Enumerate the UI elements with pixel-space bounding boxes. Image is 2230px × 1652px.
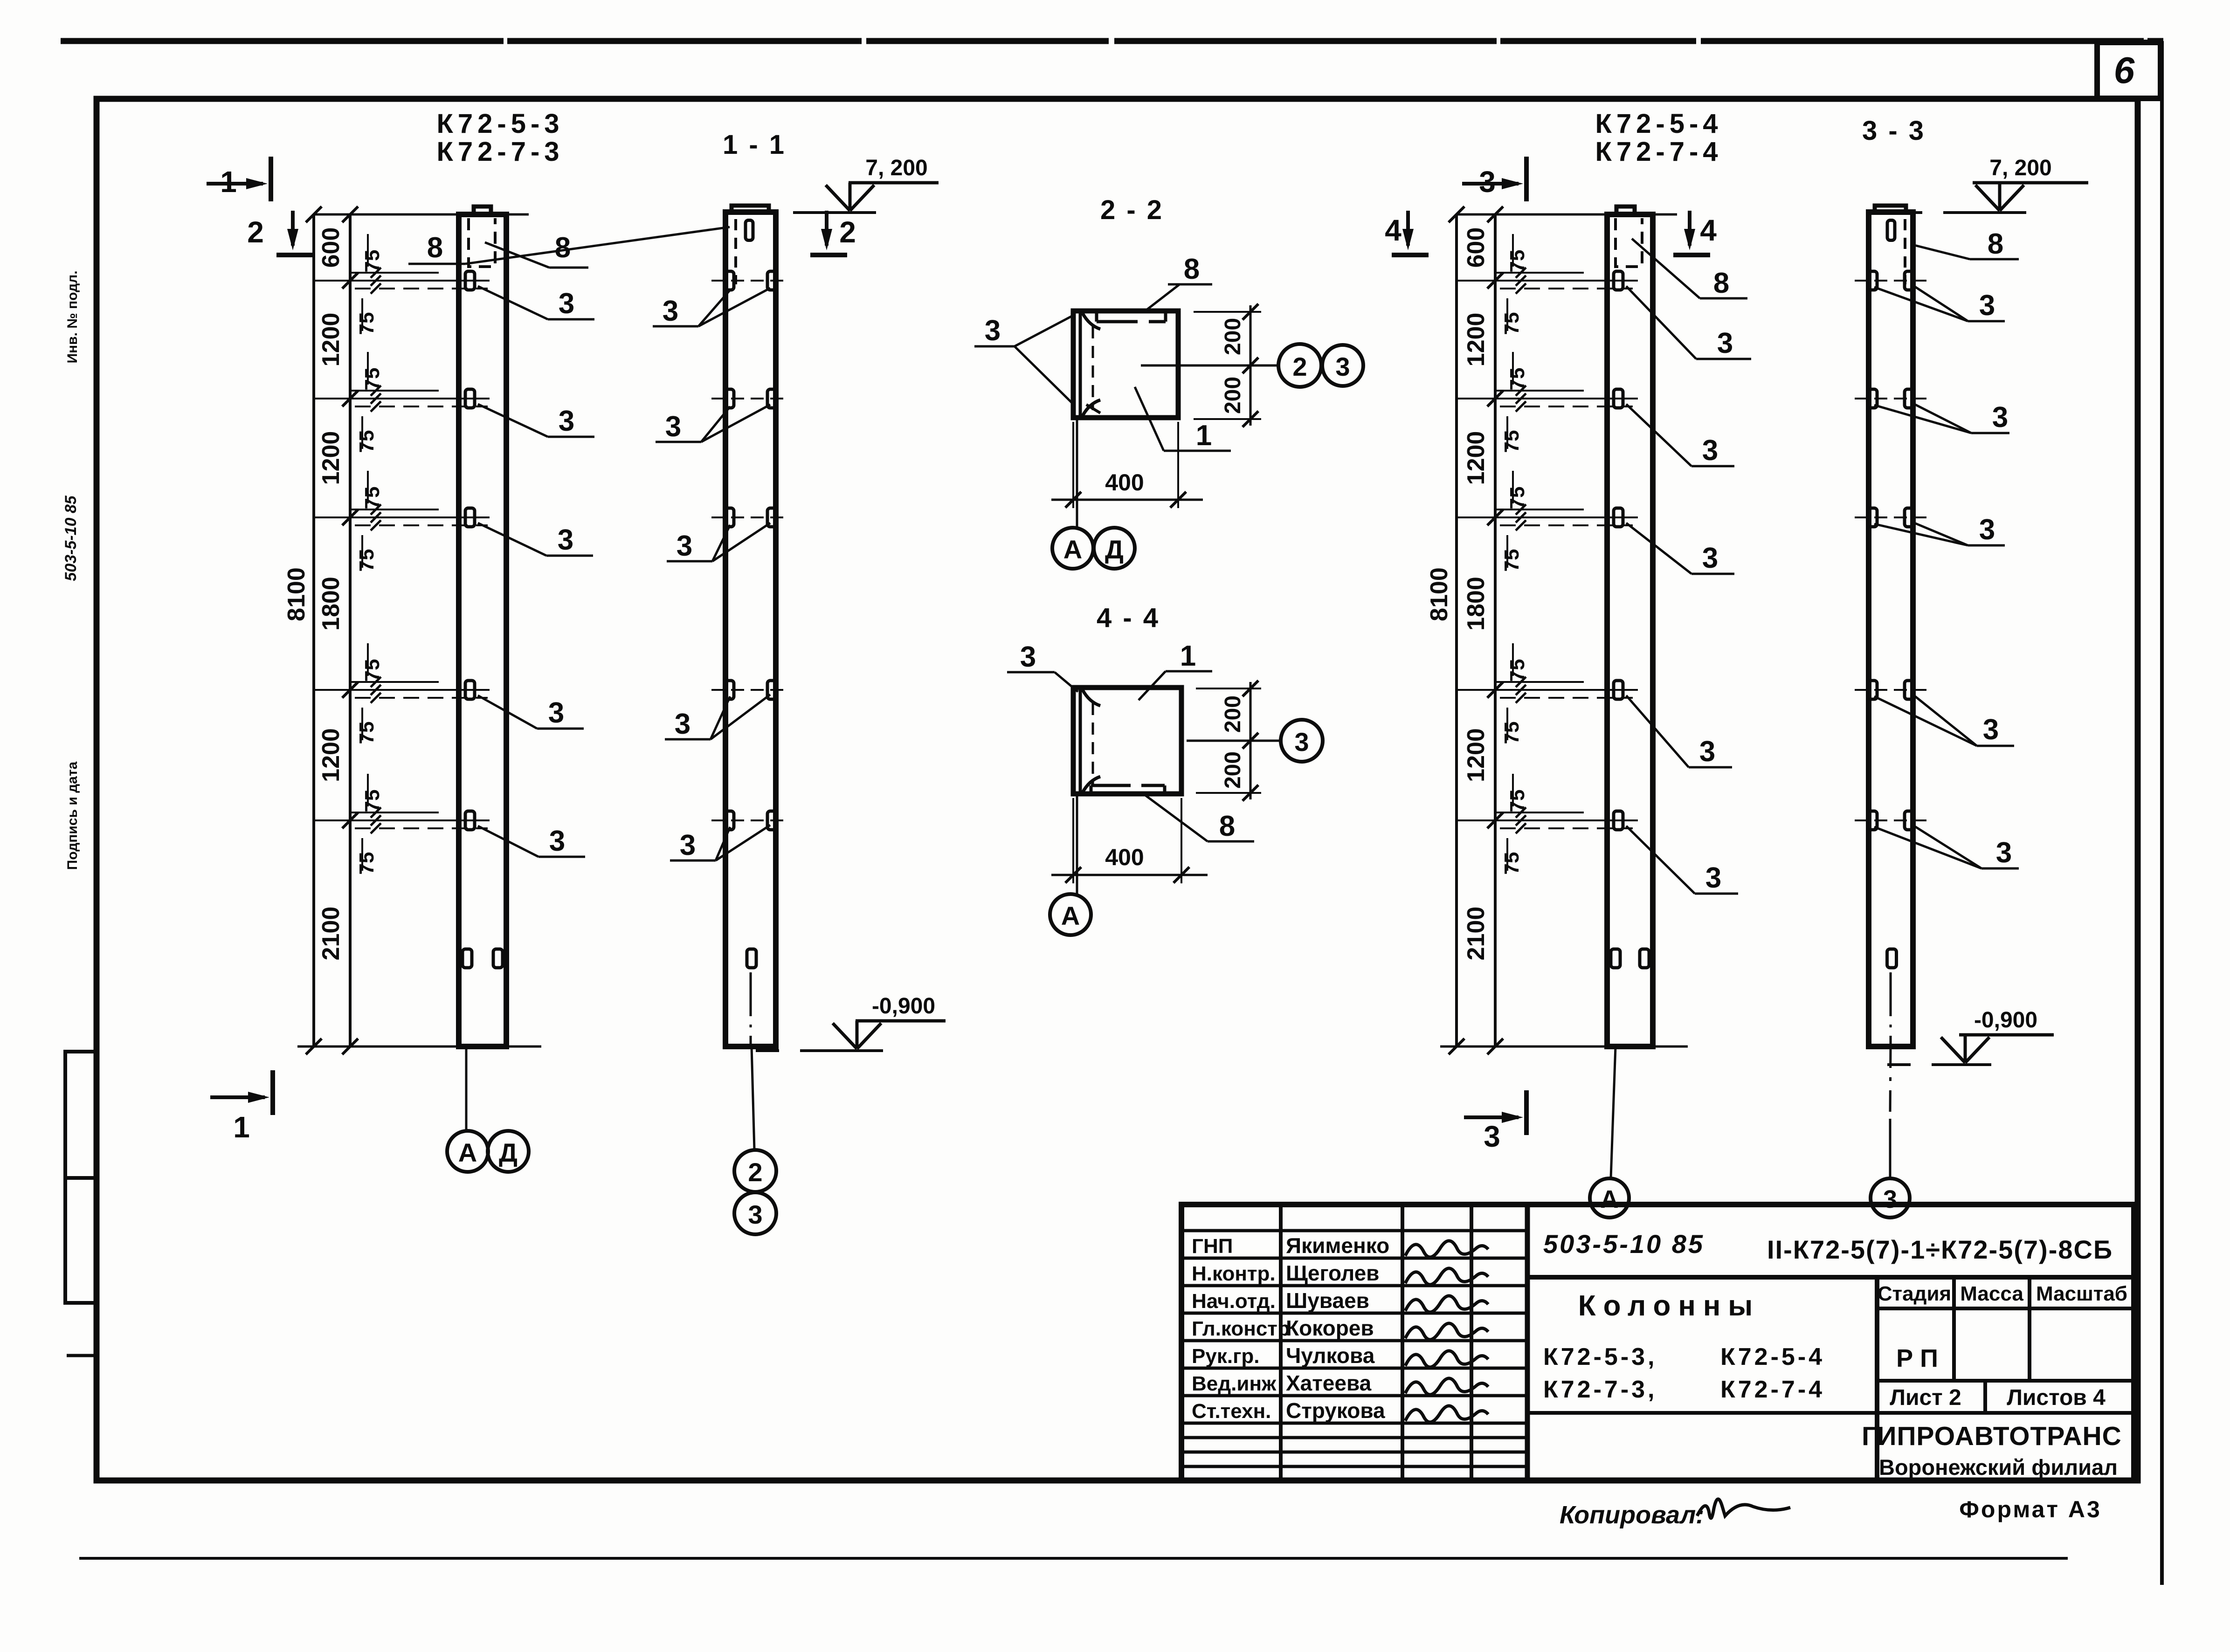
- grid circle A (4-4): [1050, 894, 1091, 935]
- section 2-2 top plate 8: [1097, 320, 1138, 324]
- svg-text:75: 75: [1500, 722, 1523, 744]
- svg-text:400: 400: [1105, 469, 1144, 496]
- cell Kolonny: [1875, 1277, 1879, 1480]
- svg-text:К72-5-4: К72-5-4: [1720, 1343, 1825, 1370]
- leaders 3 (embedded items, K72-5-3): [478, 286, 548, 319]
- grid circle 3: [734, 1192, 776, 1234]
- svg-text:Д: Д: [1105, 535, 1124, 564]
- section 4-4 square outline: [1073, 688, 1181, 794]
- svg-text:200: 200: [1221, 377, 1245, 414]
- svg-text:Формат А3: Формат А3: [1959, 1496, 2102, 1522]
- section 2-2 channel flange line: [1079, 313, 1082, 416]
- svg-text:1: 1: [233, 1110, 250, 1144]
- svg-text:А: А: [1061, 901, 1080, 930]
- section 4-4 bottom plate 8: [1091, 784, 1131, 787]
- axis line + grid circles 2/3 (section 2-2): [1141, 365, 1277, 367]
- svg-text:3: 3: [1992, 401, 2008, 434]
- sheet row: [1877, 1379, 2134, 1383]
- svg-text:1: 1: [220, 165, 237, 199]
- section 4-4 hidden dashed line: [1092, 703, 1094, 787]
- svg-text:8: 8: [427, 232, 443, 264]
- leaders 3 (1-1 view): [698, 290, 730, 326]
- column section 1-1 view: [725, 212, 776, 1046]
- title block divider under doc numbers: [1527, 1275, 2134, 1280]
- svg-text:Воронежский филиал: Воронежский филиал: [1879, 1455, 2118, 1480]
- svg-text:75: 75: [1506, 368, 1529, 391]
- grid circle D: [488, 1131, 529, 1172]
- svg-text:Ст.техн.: Ст.техн.: [1192, 1400, 1271, 1423]
- svg-text:3: 3: [1979, 289, 1995, 322]
- svg-text:Гл.констр: Гл.констр: [1192, 1317, 1290, 1340]
- svg-text:Колонны: Колонны: [1578, 1290, 1760, 1322]
- svg-text:2: 2: [247, 215, 264, 249]
- svg-text:3: 3: [559, 405, 574, 437]
- svg-text:К72-7-4: К72-7-4: [1595, 137, 1722, 167]
- section 4-4 channel flange line: [1079, 690, 1082, 792]
- section marker 3 (bottom): [1464, 1115, 1519, 1119]
- svg-text:3: 3: [748, 1200, 762, 1229]
- svg-text:К72-5-4: К72-5-4: [1595, 109, 1722, 139]
- svg-text:1800: 1800: [318, 577, 345, 631]
- svg-text:2: 2: [839, 215, 856, 249]
- svg-text:4 - 4: 4 - 4: [1097, 603, 1160, 633]
- title block signature table: [1525, 1205, 1530, 1480]
- svg-text:К72-7-3,: К72-7-3,: [1543, 1376, 1657, 1403]
- svg-text:3: 3: [1883, 1185, 1897, 1213]
- svg-text:75: 75: [355, 549, 378, 572]
- grid circle 2: [734, 1150, 776, 1192]
- svg-text:75: 75: [361, 487, 384, 509]
- dim chain lines right: [1455, 214, 1458, 1046]
- page number box: [2097, 42, 2161, 98]
- svg-text:75: 75: [1506, 250, 1529, 273]
- svg-text:Лист 2: Лист 2: [1890, 1385, 1961, 1410]
- grid circle A: [447, 1131, 488, 1172]
- svg-text:1: 1: [1196, 420, 1212, 452]
- leader 8 (top plate, K72-5-3): [485, 242, 549, 268]
- section 2-2 square outline: [1073, 311, 1178, 418]
- svg-text:Р П: Р П: [1896, 1344, 1938, 1372]
- sheet bottom edge: [79, 1557, 2068, 1560]
- svg-text:К72-7-4: К72-7-4: [1720, 1376, 1825, 1403]
- grid circle 2 (2-2): [1278, 344, 1321, 387]
- svg-text:Масса: Масса: [1960, 1282, 2023, 1305]
- svg-text:ГНП: ГНП: [1192, 1235, 1233, 1258]
- svg-text:400: 400: [1105, 844, 1144, 870]
- dim 400 (section 4-4): [1072, 798, 1074, 883]
- svg-text:Якименко: Якименко: [1286, 1233, 1389, 1258]
- svg-text:1200: 1200: [1463, 431, 1490, 485]
- svg-text:3: 3: [1294, 727, 1309, 757]
- svg-text:1200: 1200: [318, 728, 345, 782]
- svg-text:1 - 1: 1 - 1: [723, 130, 786, 160]
- svg-text:75: 75: [1506, 659, 1529, 682]
- section marker 4 (right of K72-5-4): [1688, 211, 1691, 246]
- leader 1 (section 4-4): [1166, 670, 1212, 673]
- axis line to grid circle 3 (3-3): [1890, 972, 1892, 998]
- elevation mark -0,900 (right): [1932, 1063, 1991, 1066]
- svg-text:3: 3: [548, 697, 564, 729]
- svg-text:75: 75: [355, 312, 378, 335]
- svg-text:3: 3: [1484, 1120, 1500, 1153]
- axis line to circles 2/3 under 1-1: [750, 972, 752, 998]
- svg-text:3: 3: [680, 829, 696, 861]
- grid circle 3 (2-2): [1322, 345, 1363, 386]
- svg-text:Кокорев: Кокорев: [1286, 1316, 1374, 1340]
- svg-text:6: 6: [2114, 49, 2135, 91]
- svg-text:7, 200: 7, 200: [865, 156, 927, 180]
- svg-text:8: 8: [1988, 228, 2003, 260]
- svg-text:1200: 1200: [318, 431, 345, 485]
- leader 8 (1-1 view): [465, 227, 730, 264]
- svg-text:3: 3: [1702, 434, 1718, 467]
- svg-text:Копировал:: Копировал:: [1560, 1501, 1704, 1529]
- column K72-5-4 elevation: [1607, 214, 1653, 1046]
- svg-text:75: 75: [1500, 312, 1523, 335]
- title block outline: [1181, 1205, 2134, 1480]
- section 4-4 anchor hook bottom-left: [1083, 777, 1100, 792]
- svg-text:75: 75: [1500, 852, 1523, 875]
- leaders 3 (3-3 view): [1874, 287, 1968, 321]
- svg-text:3: 3: [1983, 714, 1999, 746]
- stage/mass/scale header: [1877, 1307, 2134, 1310]
- axis line to grid circle A (K72-5-4): [1611, 1046, 1616, 1178]
- drawing frame: [97, 99, 2138, 1480]
- svg-text:600: 600: [1463, 227, 1490, 268]
- svg-text:3: 3: [1705, 862, 1721, 894]
- svg-text:3 - 3: 3 - 3: [1862, 116, 1926, 146]
- svg-text:II-К72-5(7)-1÷К72-5(7)-8СБ: II-К72-5(7)-1÷К72-5(7)-8СБ: [1767, 1235, 2113, 1264]
- svg-text:Щеголев: Щеголев: [1286, 1261, 1379, 1285]
- svg-text:75: 75: [361, 368, 384, 391]
- svg-text:1: 1: [1180, 640, 1196, 672]
- svg-text:А: А: [1601, 1185, 1619, 1213]
- svg-text:8: 8: [555, 232, 571, 264]
- section marker 3 (top): [1462, 182, 1519, 186]
- dim chain lines: [312, 214, 315, 1046]
- svg-text:2100: 2100: [318, 907, 345, 961]
- svg-text:3: 3: [549, 825, 565, 857]
- svg-text:Инв. № подл.: Инв. № подл.: [65, 270, 80, 363]
- column K72-5-3 elevation: [459, 214, 506, 1046]
- svg-text:-0,900: -0,900: [872, 994, 935, 1019]
- svg-text:3: 3: [985, 315, 1001, 347]
- svg-text:3: 3: [1020, 641, 1036, 673]
- svg-text:Подпись и дата: Подпись и дата: [65, 761, 80, 870]
- axis line to grid circles A/D: [465, 1046, 468, 1131]
- svg-text:3: 3: [1479, 165, 1496, 199]
- left margin box 2: [65, 1178, 97, 1303]
- svg-text:Хатеева: Хатеева: [1286, 1371, 1372, 1395]
- svg-text:75: 75: [1500, 430, 1523, 453]
- svg-text:7, 200: 7, 200: [1989, 156, 2051, 180]
- axis line + grid circle A (section 4-4): [1076, 794, 1078, 894]
- section 2-2 hidden dashed line: [1092, 326, 1094, 410]
- svg-text:Стадия: Стадия: [1878, 1282, 1951, 1305]
- svg-text:3: 3: [675, 708, 690, 740]
- signature after Kopiroval: [1697, 1499, 1790, 1518]
- svg-text:75: 75: [355, 722, 378, 744]
- section 2-2 anchor hook bottom-left: [1083, 400, 1100, 416]
- column section 3-3 view: [1869, 212, 1913, 1046]
- svg-text:Рук.гр.: Рук.гр.: [1192, 1345, 1260, 1368]
- svg-text:600: 600: [318, 227, 345, 268]
- leader 8 (section 2-2): [1145, 284, 1180, 311]
- section 4-4 anchor hook top-left: [1083, 690, 1100, 706]
- svg-text:75: 75: [361, 790, 384, 812]
- svg-text:8100: 8100: [283, 567, 310, 621]
- left margin box 1: [65, 1052, 97, 1178]
- svg-text:1200: 1200: [318, 313, 345, 367]
- axis line + grid circle 3 (section 4-4): [1187, 740, 1280, 742]
- svg-text:3: 3: [558, 524, 573, 556]
- svg-text:200: 200: [1221, 751, 1245, 789]
- axis line + grid circles A/D (section 2-2): [1076, 418, 1078, 527]
- svg-text:200: 200: [1221, 695, 1245, 733]
- sheet top edge: [61, 38, 2163, 44]
- svg-text:Листов 4: Листов 4: [2007, 1385, 2106, 1410]
- grid circle 3 (bottom right): [1871, 1178, 1910, 1218]
- dims 200/200 (section 4-4): [1196, 688, 1261, 689]
- svg-text:503-5-10 85: 503-5-10 85: [1543, 1229, 1705, 1259]
- svg-text:75: 75: [361, 250, 384, 273]
- svg-text:2: 2: [748, 1157, 762, 1187]
- svg-text:3: 3: [1702, 542, 1718, 574]
- svg-text:-0,900: -0,900: [1974, 1008, 2037, 1032]
- leader 8 (3-3 view): [1914, 245, 1970, 259]
- section marker 2 (right of 1-1): [825, 211, 828, 246]
- svg-text:1200: 1200: [1463, 313, 1490, 367]
- svg-text:75: 75: [355, 852, 378, 875]
- grid circle D (2-2): [1094, 528, 1135, 569]
- leader 3 (section 4-4): [1007, 671, 1055, 674]
- svg-text:К72-5-3,: К72-5-3,: [1543, 1343, 1657, 1370]
- elevation mark +7,200 (left): [793, 211, 876, 214]
- svg-text:А: А: [1063, 535, 1082, 564]
- dims 200/200 (section 2-2): [1194, 311, 1261, 313]
- leaders 3 (embedded items, K72-5-4): [1626, 286, 1696, 359]
- svg-text:1200: 1200: [1463, 728, 1490, 782]
- svg-text:75: 75: [361, 659, 384, 682]
- dim 400 (section 2-2): [1072, 422, 1074, 508]
- svg-text:3: 3: [663, 295, 678, 327]
- svg-text:4: 4: [1700, 213, 1717, 247]
- svg-text:3: 3: [1996, 837, 2012, 869]
- svg-text:8: 8: [1184, 253, 1200, 285]
- svg-text:Нач.отд.: Нач.отд.: [1192, 1290, 1276, 1313]
- svg-text:А: А: [458, 1138, 477, 1167]
- elevation mark +7,200 (right): [1943, 211, 2026, 214]
- svg-text:К72-5-3: К72-5-3: [436, 109, 564, 139]
- svg-text:75: 75: [355, 430, 378, 453]
- grid circle A (right): [1590, 1178, 1629, 1218]
- svg-text:К72-7-3: К72-7-3: [436, 137, 564, 167]
- svg-text:4: 4: [1385, 213, 1402, 247]
- svg-text:Масштаб: Масштаб: [2036, 1282, 2127, 1305]
- leader 3 with fork (section 2-2): [974, 345, 1015, 348]
- section marker 1 (top): [207, 182, 263, 186]
- svg-text:2: 2: [1292, 352, 1307, 381]
- svg-text:Н.контр.: Н.контр.: [1192, 1262, 1276, 1285]
- svg-text:8100: 8100: [1426, 567, 1453, 621]
- elevation mark -0,900 (left): [800, 1049, 883, 1052]
- svg-text:Шуваев: Шуваев: [1286, 1288, 1369, 1313]
- svg-text:Вед.инж: Вед.инж: [1192, 1372, 1277, 1395]
- leader 8 (section 4-4): [1145, 795, 1208, 841]
- svg-text:503-5-10 85: 503-5-10 85: [62, 495, 80, 581]
- svg-text:ГИПРОАВТОТРАНС: ГИПРОАВТОТРАНС: [1862, 1421, 2122, 1451]
- section 2-2 anchor hook top-left: [1083, 313, 1100, 329]
- svg-text:8: 8: [1713, 267, 1729, 299]
- svg-text:2 - 2: 2 - 2: [1100, 195, 1164, 225]
- svg-text:3: 3: [677, 530, 692, 562]
- svg-text:3: 3: [1979, 514, 1995, 546]
- svg-text:3: 3: [1699, 736, 1715, 768]
- left margin tick: [67, 1354, 97, 1357]
- svg-text:Чулкова: Чулкова: [1286, 1343, 1375, 1368]
- svg-text:75: 75: [1500, 549, 1523, 572]
- svg-text:75: 75: [1506, 487, 1529, 509]
- leader 8 (top plate, K72-5-4): [1632, 239, 1700, 298]
- svg-text:3: 3: [559, 288, 574, 320]
- section marker 1 (bottom): [210, 1095, 265, 1099]
- svg-text:3: 3: [1717, 327, 1733, 359]
- grid circle 3 (4-4): [1281, 720, 1323, 762]
- sheet right edge: [2160, 41, 2164, 1585]
- svg-text:Струкова: Струкова: [1286, 1398, 1385, 1423]
- section marker 4 (left): [1406, 211, 1410, 246]
- svg-text:3: 3: [665, 411, 681, 443]
- svg-text:1800: 1800: [1463, 577, 1490, 631]
- svg-text:75: 75: [1506, 790, 1529, 812]
- svg-text:Д: Д: [499, 1138, 518, 1167]
- leader 1 (section 2-2): [1135, 387, 1164, 451]
- section marker 2 (left): [291, 211, 295, 246]
- svg-text:3: 3: [1335, 352, 1350, 381]
- grid circle A (2-2): [1052, 528, 1093, 569]
- svg-text:200: 200: [1221, 318, 1245, 355]
- svg-text:8: 8: [1219, 810, 1235, 842]
- svg-text:2100: 2100: [1463, 907, 1490, 961]
